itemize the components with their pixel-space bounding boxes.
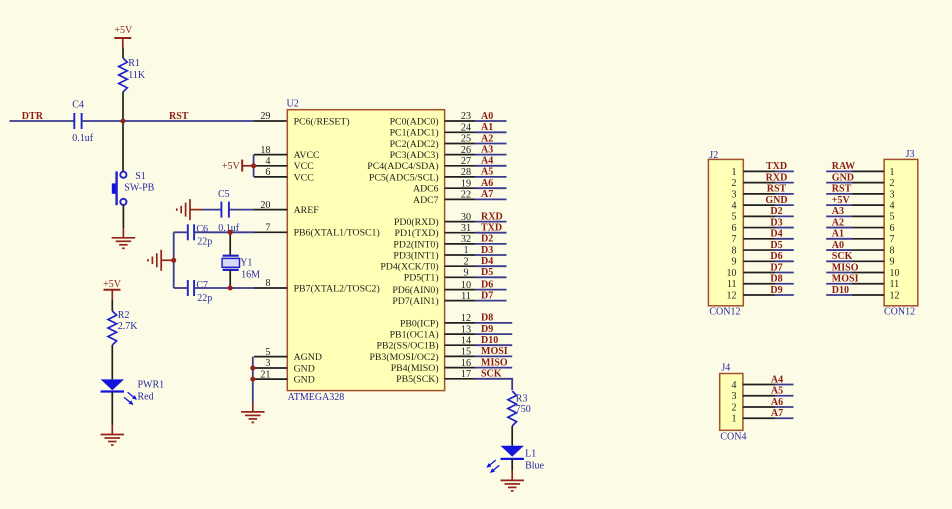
U2 pin 3 GND (254, 358, 315, 374)
J4 pin 1 (732, 414, 776, 425)
capacitor C5 (221, 202, 229, 218)
wire net A1 (475, 131, 507, 133)
svg-text:D5: D5 (770, 240, 782, 251)
svg-text:26: 26 (461, 145, 471, 156)
svg-text:10: 10 (461, 280, 471, 291)
svg-text:D7: D7 (481, 290, 493, 301)
svg-text:C4: C4 (72, 100, 84, 111)
J4 pin 4 (732, 380, 776, 391)
svg-text:A3: A3 (481, 144, 493, 155)
svg-text:PC1(ADC1): PC1(ADC1) (390, 128, 439, 139)
svg-text:PB4(MISO): PB4(MISO) (391, 363, 439, 374)
svg-text:11: 11 (461, 291, 471, 302)
svg-text:+5V: +5V (832, 195, 851, 206)
J3 pin 10 (852, 268, 900, 279)
svg-text:PD1(TXD): PD1(TXD) (395, 228, 439, 239)
svg-text:6: 6 (890, 223, 895, 234)
svg-text:SW-PB: SW-PB (124, 183, 154, 194)
svg-text:A1: A1 (832, 229, 844, 240)
svg-text:A2: A2 (832, 217, 844, 228)
pin wire R1 bottom (122, 92, 124, 121)
U2 pin 23 PC0(ADC0) (390, 111, 475, 127)
wire GND bracket (252, 357, 254, 403)
svg-text:8: 8 (890, 245, 895, 256)
svg-text:AREF: AREF (294, 205, 320, 216)
svg-text:A4: A4 (481, 156, 493, 167)
svg-text:RST: RST (832, 184, 852, 195)
svg-text:S1: S1 (135, 171, 146, 182)
power +5V (R2) (103, 279, 122, 290)
U2 pin 25 PC2(ADC2) (390, 134, 475, 150)
svg-text:24: 24 (461, 123, 471, 134)
wire net A4 (475, 165, 507, 167)
svg-text:TXD: TXD (766, 161, 787, 172)
svg-text:25: 25 (461, 134, 471, 145)
U2 pin 17 PB5(SCK) (396, 369, 475, 385)
svg-text:0.1uf: 0.1uf (72, 133, 94, 144)
junction XTAL2 node (228, 286, 233, 291)
ground at C5 (177, 199, 202, 220)
svg-text:PB2(SS/OC1B): PB2(SS/OC1B) (377, 341, 439, 352)
svg-text:2: 2 (463, 256, 468, 267)
svg-text:23: 23 (461, 111, 471, 122)
U2 pin 16 PB4(MISO) (391, 358, 475, 374)
svg-text:3: 3 (732, 391, 737, 402)
svg-text:D4: D4 (770, 229, 782, 240)
wire net D2 (475, 243, 507, 245)
svg-text:14: 14 (461, 335, 471, 346)
svg-text:Y1: Y1 (240, 258, 252, 269)
svg-text:AGND: AGND (294, 352, 322, 363)
U2 pin 31 PD1(TXD) (395, 223, 475, 239)
J2 pin 4 (732, 201, 776, 212)
J2 pin 1 (732, 167, 776, 178)
pin 29 lead (254, 120, 287, 122)
J3 pin 1 (852, 167, 895, 178)
svg-text:PD2(INT0): PD2(INT0) (393, 239, 438, 250)
svg-text:RST: RST (767, 184, 787, 195)
led PWR1 (101, 379, 137, 405)
capacitor C4 (74, 113, 81, 129)
svg-text:10: 10 (890, 268, 900, 279)
J4 pin 3 (732, 391, 776, 402)
svg-text:D4: D4 (481, 256, 493, 267)
svg-text:CON12: CON12 (884, 307, 915, 318)
svg-text:PC2(ADC2): PC2(ADC2) (390, 139, 439, 150)
svg-text:A5: A5 (771, 386, 783, 397)
svg-text:ADC7: ADC7 (413, 195, 439, 206)
junction GND pin 21 (250, 377, 255, 382)
svg-text:A3: A3 (832, 206, 844, 217)
svg-text:13: 13 (461, 324, 471, 335)
junction VCC bracket (251, 163, 256, 168)
U2 pin 30 PD0(RXD) (394, 212, 475, 228)
svg-text:PD4(XCK/T0): PD4(XCK/T0) (380, 262, 438, 273)
U2 pin 27 PC4(ADC4/SDA) (367, 156, 475, 172)
svg-text:5: 5 (890, 212, 895, 223)
svg-text:12: 12 (727, 290, 737, 301)
svg-text:PB7(XTAL2/TOSC2): PB7(XTAL2/TOSC2) (294, 283, 380, 294)
svg-text:20: 20 (260, 200, 270, 211)
wire rail to C7 (174, 287, 188, 289)
wire SCK to R3 (475, 379, 512, 390)
connector J4 body (720, 374, 743, 431)
junction XTAL1 node (228, 230, 233, 235)
svg-text:9: 9 (732, 257, 737, 268)
svg-text:8: 8 (265, 278, 270, 289)
wire net MOSI (J3-11) (826, 283, 852, 285)
wire PWR1 to ground (111, 392, 113, 426)
svg-text:D6: D6 (481, 279, 493, 290)
wire net D4 (J2-7) (775, 238, 794, 240)
wire net D5 (475, 276, 507, 278)
svg-text:31: 31 (461, 223, 471, 234)
wire net D8 (475, 322, 512, 324)
wire net +5V (J3-4) (826, 204, 852, 206)
svg-text:ADC6: ADC6 (413, 184, 439, 195)
wire net MISO (475, 367, 512, 369)
svg-text:D8: D8 (770, 274, 782, 285)
svg-text:1: 1 (732, 414, 737, 425)
wire net A3 (475, 154, 507, 156)
svg-text:A2: A2 (481, 133, 493, 144)
svg-text:RXD: RXD (766, 172, 788, 183)
svg-text:1: 1 (732, 167, 737, 178)
J2 pin 10 (727, 268, 776, 279)
svg-text:GND: GND (832, 172, 854, 183)
ground under L1 (500, 471, 524, 491)
wire net D3 (J2-6) (775, 227, 794, 229)
svg-text:750: 750 (516, 404, 531, 415)
wire net D5 (J2-8) (775, 249, 794, 251)
ic U2 ATMEGA328 body (287, 110, 444, 391)
svg-text:PB6(XTAL1/TOSC1): PB6(XTAL1/TOSC1) (294, 228, 380, 239)
svg-text:MISO: MISO (832, 262, 859, 273)
svg-text:32: 32 (461, 234, 471, 245)
svg-text:PD0(RXD): PD0(RXD) (394, 217, 439, 228)
U2 pin 6 VCC (254, 167, 314, 183)
svg-text:10: 10 (727, 268, 737, 279)
svg-text:PC3(ADC3): PC3(ADC3) (390, 150, 439, 161)
resistor R1 (119, 58, 128, 92)
svg-text:R2: R2 (118, 310, 130, 321)
svg-text:9: 9 (463, 268, 468, 279)
svg-text:AVCC: AVCC (294, 150, 320, 161)
U2 pin 19 ADC6 (413, 178, 475, 194)
svg-text:4: 4 (890, 201, 895, 212)
svg-text:J2: J2 (709, 150, 718, 161)
wire net RXD (475, 221, 507, 223)
U2 pin 5 AGND (254, 347, 322, 363)
wire net A7 (475, 198, 507, 200)
svg-text:PC6(/RESET): PC6(/RESET) (294, 116, 350, 127)
U2 pin 20 AREF (254, 200, 319, 216)
wire net GND (J2-4) (775, 204, 794, 206)
U2 pin 11 PD7(AIN1) (392, 291, 475, 307)
J3 pin 5 (852, 212, 895, 223)
wire net RXD (J2-2) (775, 182, 794, 184)
wire net A4 (J4-4) (775, 384, 794, 386)
resistor R3 (508, 391, 517, 426)
wire XTAL1 to Y1 (229, 232, 231, 255)
svg-text:L1: L1 (525, 449, 536, 460)
svg-text:PC5(ADC5/SCL): PC5(ADC5/SCL) (369, 172, 439, 183)
wire S1 to ground (122, 205, 124, 228)
svg-text:CON12: CON12 (709, 307, 740, 318)
svg-text:3: 3 (265, 358, 270, 369)
wire VCC bracket (253, 155, 255, 177)
wire net A2 (J3-6) (826, 227, 852, 229)
wire +5V to R2 (111, 290, 113, 300)
svg-text:VCC: VCC (294, 172, 314, 183)
wire net D10 (J3-12) (826, 294, 852, 296)
wire net D4 (475, 265, 507, 267)
svg-text:D5: D5 (481, 267, 493, 278)
U2 pin 18 AVCC (254, 145, 320, 161)
J3 pin 4 (852, 201, 895, 212)
svg-text:PD3(INT1): PD3(INT1) (393, 250, 438, 261)
svg-text:MOSI: MOSI (481, 346, 508, 357)
wire net RST (J3-3) (826, 193, 852, 195)
pin wire R2 top (111, 300, 113, 311)
wire net RST (J2-3) (775, 193, 794, 195)
wire Y1 to XTAL2 (229, 270, 231, 288)
wire net TXD (J2-1) (775, 170, 794, 172)
wire net D8 (J2-11) (775, 283, 794, 285)
U2 pin 10 PD6(AIN0) (392, 280, 475, 296)
crystal Y1 (222, 256, 239, 270)
svg-text:29: 29 (260, 111, 270, 122)
J2 pin 6 (732, 223, 776, 234)
svg-text:A7: A7 (771, 408, 783, 419)
U2 pin 13 PB1(OC1A) (390, 324, 475, 340)
U2 pin 12 PB0(ICP) (400, 313, 475, 329)
svg-text:ATMEGA328: ATMEGA328 (288, 392, 345, 403)
svg-text:PD7(AIN1): PD7(AIN1) (392, 296, 438, 307)
J3 pin 8 (852, 245, 895, 256)
wire net D6 (J2-9) (775, 260, 794, 262)
wire net D10 (475, 344, 512, 346)
wire R2 to PWR1 (111, 345, 113, 379)
svg-text:7: 7 (732, 234, 737, 245)
svg-text:PC0(ADC0): PC0(ADC0) (390, 116, 439, 127)
svg-text:2.7K: 2.7K (118, 321, 139, 332)
svg-text:GND: GND (294, 363, 315, 374)
svg-text:4: 4 (732, 380, 737, 391)
svg-text:15: 15 (461, 347, 471, 358)
wire net RAW (J3-1) (826, 170, 852, 172)
svg-text:PB5(SCK): PB5(SCK) (396, 374, 438, 385)
U2 pin 1 PD3(INT1) (393, 245, 475, 261)
svg-text:SCK: SCK (481, 369, 502, 380)
svg-text:2: 2 (732, 402, 737, 413)
svg-text:16M: 16M (241, 269, 260, 280)
svg-text:MISO: MISO (481, 357, 508, 368)
svg-text:3: 3 (890, 189, 895, 200)
connector J2 body (708, 159, 743, 305)
U2 pin 32 PD2(INT0) (393, 234, 475, 250)
svg-text:18: 18 (260, 145, 270, 156)
J2 pin 11 (727, 279, 775, 290)
wire net A1 (J3-7) (826, 238, 852, 240)
wire net A7 (J4-1) (775, 417, 794, 419)
resistor R2 (108, 311, 117, 345)
wire net MOSI (475, 355, 512, 357)
svg-text:CON4: CON4 (720, 431, 746, 442)
wire ground to C5 (202, 209, 221, 211)
wire net A0 (475, 120, 507, 122)
junction GND pin 3 (250, 366, 255, 371)
J2 pin 7 (732, 234, 776, 245)
wire RST to U2 pin 29 (123, 120, 254, 122)
svg-text:27: 27 (461, 156, 471, 167)
wire net D9 (J2-12) (775, 294, 794, 296)
wire net D7 (475, 300, 507, 302)
wire net D2 (J2-5) (775, 215, 794, 217)
svg-text:R1: R1 (128, 58, 140, 69)
svg-text:17: 17 (461, 369, 471, 380)
J2 pin 2 (732, 178, 776, 189)
svg-text:7: 7 (890, 234, 895, 245)
U2 pin 15 PB3(MOSI/OC2) (369, 347, 475, 363)
wire +5V to R1 (122, 38, 124, 48)
svg-text:SCK: SCK (832, 251, 853, 262)
J3 pin 7 (852, 234, 895, 245)
svg-text:11: 11 (890, 279, 900, 290)
svg-text:TXD: TXD (481, 223, 502, 234)
pin wire R1 top (122, 48, 124, 59)
wire L1 to ground (511, 459, 513, 471)
svg-text:C5: C5 (218, 189, 230, 200)
wire RST node to S1 (122, 121, 124, 172)
U2 pin 26 PC3(ADC3) (390, 145, 475, 161)
wire C5 to AREF pin 20 (229, 209, 254, 211)
capacitor C7 (188, 280, 194, 296)
svg-text:J4: J4 (721, 363, 730, 374)
svg-text:D2: D2 (770, 206, 782, 217)
svg-text:PC4(ADC4/SDA): PC4(ADC4/SDA) (367, 161, 438, 172)
power +5V (VCC pins) (222, 160, 254, 172)
svg-text:2: 2 (732, 178, 737, 189)
wire net A0 (J3-8) (826, 249, 852, 251)
svg-text:D10: D10 (481, 335, 498, 346)
wire net GND (J3-2) (826, 182, 852, 184)
svg-text:1: 1 (463, 245, 468, 256)
svg-text:Red: Red (138, 392, 154, 403)
wire C6 to U2 pin 7 (194, 231, 254, 233)
svg-text:A0: A0 (481, 111, 493, 122)
svg-text:GND: GND (765, 195, 787, 206)
svg-text:J3: J3 (906, 149, 915, 160)
J3 pin 12 (852, 290, 900, 301)
power +5V (top of R1) (114, 25, 133, 38)
svg-text:D6: D6 (770, 251, 782, 262)
wire XTAL left rail (173, 232, 175, 288)
svg-text:+5V: +5V (114, 25, 133, 36)
J2 pin 9 (732, 257, 776, 268)
svg-text:RAW: RAW (832, 161, 855, 172)
U2 pin 9 PD5(T1) (404, 268, 475, 284)
wire C4 to RST node (82, 120, 123, 122)
ground under S1 (112, 228, 135, 248)
svg-text:PB0(ICP): PB0(ICP) (400, 318, 439, 329)
svg-text:4: 4 (732, 201, 737, 212)
junction crystal ground rail (171, 258, 176, 263)
U2 pin 2 PD4(XCK/T0) (380, 256, 475, 272)
wire net TXD (475, 232, 507, 234)
svg-text:D9: D9 (481, 324, 493, 335)
svg-text:+5V: +5V (103, 279, 122, 290)
U2 pin 14 PB2(SS/OC1B) (377, 335, 475, 351)
svg-text:2: 2 (890, 178, 895, 189)
svg-text:PD5(T1): PD5(T1) (404, 273, 439, 284)
ground at crystal (148, 250, 174, 271)
U2 pin 8 PB7(XTAL2/TOSC2) (254, 278, 380, 294)
svg-text:A4: A4 (771, 374, 783, 385)
svg-text:PWR1: PWR1 (138, 380, 165, 391)
wire net MISO (J3-10) (826, 272, 852, 274)
svg-text:9: 9 (890, 257, 895, 268)
svg-text:D2: D2 (481, 234, 493, 245)
wire R3 to L1 (511, 426, 513, 446)
svg-text:22p: 22p (197, 293, 212, 304)
svg-text:28: 28 (461, 167, 471, 178)
svg-text:GND: GND (294, 375, 315, 386)
svg-text:12: 12 (461, 313, 471, 324)
wire net A3 (J3-5) (826, 215, 852, 217)
connector J3 body (884, 159, 918, 305)
svg-text:D3: D3 (481, 245, 493, 256)
svg-text:D3: D3 (770, 217, 782, 228)
svg-text:R3: R3 (516, 393, 528, 404)
U2 pin 24 PC1(ADC1) (390, 123, 475, 139)
svg-text:4: 4 (265, 156, 270, 167)
svg-text:PD6(AIN0): PD6(AIN0) (392, 285, 438, 296)
svg-text:PB3(MOSI/OC2): PB3(MOSI/OC2) (369, 352, 438, 363)
svg-text:A0: A0 (832, 240, 844, 251)
ground under U2 (241, 403, 264, 423)
svg-text:7: 7 (265, 223, 270, 234)
svg-text:16: 16 (461, 358, 471, 369)
svg-text:19: 19 (461, 178, 471, 189)
svg-text:MOSI: MOSI (832, 274, 859, 285)
svg-text:5: 5 (732, 212, 737, 223)
svg-text:22p: 22p (197, 236, 212, 247)
svg-text:12: 12 (890, 290, 900, 301)
svg-text:D9: D9 (770, 285, 782, 296)
svg-text:RXD: RXD (481, 211, 503, 222)
svg-text:Blue: Blue (525, 460, 544, 471)
svg-text:C7: C7 (196, 280, 208, 291)
svg-text:1: 1 (890, 167, 895, 178)
svg-text:A6: A6 (481, 178, 493, 189)
svg-text:6: 6 (732, 223, 737, 234)
led L1 (486, 446, 524, 473)
capacitor C6 (188, 224, 194, 240)
svg-text:22: 22 (461, 190, 471, 201)
svg-text:11K: 11K (128, 70, 146, 81)
U2 pin 28 PC5(ADC5/SCL) (369, 167, 475, 183)
wire C7 to U2 pin 8 (194, 287, 254, 289)
svg-text:30: 30 (461, 212, 471, 223)
svg-text:A1: A1 (481, 122, 493, 133)
svg-text:5: 5 (265, 347, 270, 358)
wire net A5 (J4-3) (775, 395, 794, 397)
wire net D6 (475, 289, 507, 291)
wire net SCK (J3-9) (826, 260, 852, 262)
svg-text:PB1(OC1A): PB1(OC1A) (390, 330, 439, 341)
wire rail to C6 (174, 231, 188, 233)
